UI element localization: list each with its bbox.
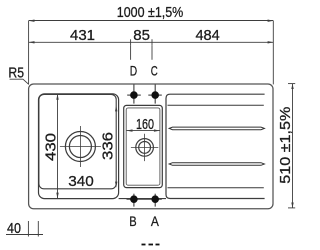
- svg-text:R5: R5: [8, 65, 24, 81]
- svg-text:430: 430: [43, 133, 59, 161]
- svg-text:160: 160: [136, 117, 154, 133]
- svg-text:336: 336: [101, 132, 117, 160]
- svg-text:85: 85: [133, 28, 150, 44]
- svg-text:C: C: [151, 63, 158, 79]
- svg-text:B: B: [129, 213, 136, 229]
- svg-text:340: 340: [68, 174, 94, 190]
- svg-text:510 ±1,5%: 510 ±1,5%: [278, 107, 294, 184]
- svg-text:A: A: [151, 213, 160, 229]
- svg-text:431: 431: [70, 28, 95, 44]
- svg-text:40: 40: [7, 221, 21, 237]
- svg-text:484: 484: [195, 28, 219, 44]
- svg-text:1000 ±1,5%: 1000 ±1,5%: [117, 5, 184, 21]
- svg-text:D: D: [130, 63, 137, 79]
